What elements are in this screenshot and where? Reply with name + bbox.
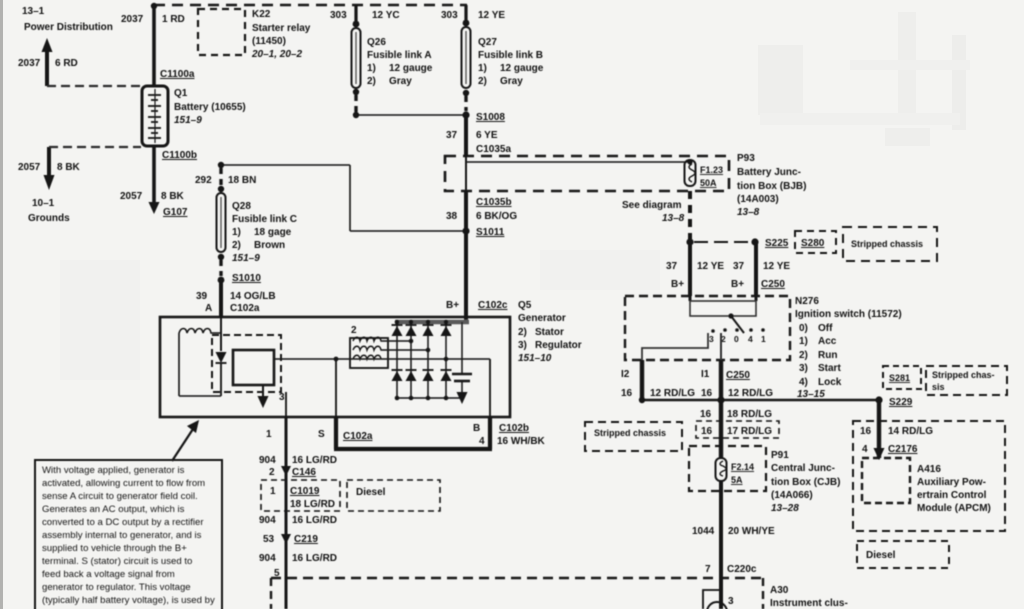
ignition switch body xyxy=(690,296,756,316)
rectifier column 4 xyxy=(445,322,447,398)
svg-text:S1011: S1011 xyxy=(476,227,505,238)
svg-text:Grounds: Grounds xyxy=(28,213,70,224)
svg-text:4: 4 xyxy=(748,334,753,344)
label wire 904 16 LG/RD (third) xyxy=(259,553,337,564)
wire pin S external xyxy=(334,417,338,449)
svg-text:16: 16 xyxy=(860,426,872,437)
svg-text:Generator: Generator xyxy=(518,313,566,324)
svg-text:0: 0 xyxy=(734,334,739,344)
label fusible link C Q28 xyxy=(232,201,297,264)
svg-text:13–8: 13–8 xyxy=(662,213,685,224)
label fusible link B Q27 xyxy=(478,37,544,87)
label pin A connector C102a xyxy=(205,303,260,314)
label wire 904 16 LG/RD (second) xyxy=(259,515,337,526)
APCM outer dashed box xyxy=(853,421,1005,531)
label battery Q1 xyxy=(174,88,246,126)
fusible link B Q27 xyxy=(462,27,471,88)
label wire 37 12 YE right and C250 xyxy=(731,261,790,290)
wire 39 14 OG/LB xyxy=(219,280,223,317)
wire 904 16 LG/RD chain xyxy=(285,417,288,609)
svg-text:2057: 2057 xyxy=(18,162,41,173)
wire Q26 branch to S1008 xyxy=(356,114,466,116)
svg-text:N276: N276 xyxy=(795,296,819,307)
svg-text:Stripped chassis: Stripped chassis xyxy=(851,239,923,249)
svg-text:1: 1 xyxy=(761,334,766,344)
svg-text:12 YE: 12 YE xyxy=(697,261,724,272)
wire dashed branch battery bottom to ground arrow xyxy=(49,146,141,148)
svg-text:C102b: C102b xyxy=(499,423,529,434)
battery Q1 xyxy=(142,86,168,146)
svg-text:C219: C219 xyxy=(294,534,318,545)
svg-text:12 YE: 12 YE xyxy=(478,10,505,21)
wire inside BJB to fuse F1.23 xyxy=(466,161,690,163)
label wire 16 12 RD/LG (right) xyxy=(701,388,773,399)
svg-text:2): 2) xyxy=(478,76,487,87)
diode field (inside regulator box) xyxy=(216,352,227,396)
svg-text:C102a: C102a xyxy=(230,303,260,314)
diode D1 top xyxy=(392,325,403,336)
svg-text:303: 303 xyxy=(441,10,458,21)
svg-text:C1100b: C1100b xyxy=(162,150,197,161)
svg-text:S229: S229 xyxy=(889,397,913,408)
svg-text:Q26: Q26 xyxy=(367,37,386,48)
svg-text:C146: C146 xyxy=(292,467,316,478)
diode D8 bottom xyxy=(441,370,452,381)
svg-text:16 LG/RD: 16 LG/RD xyxy=(292,553,337,564)
fusible link C Q28 xyxy=(217,193,226,252)
splice S225 node left xyxy=(686,238,693,245)
svg-text:C1019: C1019 xyxy=(290,486,320,497)
svg-text:3): 3) xyxy=(518,340,527,351)
wire 1044 20 WH/YE xyxy=(719,481,723,609)
svg-text:supplied to vehicle through th: supplied to vehicle through the B+ xyxy=(42,543,187,554)
svg-text:A416: A416 xyxy=(917,464,941,475)
node battery feed top xyxy=(151,3,157,9)
label grounds reference 10-1 xyxy=(28,198,70,224)
svg-text:16: 16 xyxy=(621,388,633,399)
svg-text:2057: 2057 xyxy=(120,191,143,202)
label wire 37 12 YE left xyxy=(666,261,724,290)
starter relay K22 (dashed box) xyxy=(198,9,245,55)
stator coils box xyxy=(350,338,388,368)
svg-text:assembly internal to generator: assembly internal to generator, and is xyxy=(42,530,202,541)
svg-text:37: 37 xyxy=(446,130,458,141)
label wire 303 12 YC xyxy=(330,10,400,21)
svg-text:8 BK: 8 BK xyxy=(57,162,81,173)
wire field A inside generator xyxy=(220,317,222,351)
wire contact 2 to I1 xyxy=(720,333,722,360)
indicator lamp branch xyxy=(703,590,734,609)
svg-text:P91: P91 xyxy=(771,450,789,461)
svg-text:B+: B+ xyxy=(731,279,744,290)
svg-text:C1035b: C1035b xyxy=(476,197,512,208)
svg-text:Ignition switch (11572): Ignition switch (11572) xyxy=(795,309,902,320)
svg-text:K22: K22 xyxy=(252,9,271,20)
arrow to grounds (wire 2057 8 BK) xyxy=(44,147,55,190)
wire dashed top power bus xyxy=(154,4,467,7)
wire field return bottom xyxy=(179,395,221,397)
svg-text:18 gage: 18 gage xyxy=(254,227,292,238)
node Q26 bottom xyxy=(353,89,359,95)
diode D2 top xyxy=(406,325,417,336)
battery junction box P93 (dashed box) xyxy=(445,156,729,191)
svg-text:20 WH/YE: 20 WH/YE xyxy=(728,526,775,537)
label stripped chassis (middle) xyxy=(585,422,682,451)
svg-text:Module (APCM): Module (APCM) xyxy=(917,503,991,514)
svg-text:1 RD: 1 RD xyxy=(162,14,185,25)
connector C2176 pin 4 xyxy=(862,444,918,455)
svg-text:S: S xyxy=(318,429,325,440)
field coil inside generator xyxy=(179,329,221,334)
rectifier column 2 xyxy=(410,322,412,398)
svg-text:10–1: 10–1 xyxy=(32,198,55,209)
svg-text:4: 4 xyxy=(479,436,485,447)
label diesel box (left) xyxy=(347,480,440,511)
svg-text:S281: S281 xyxy=(889,373,910,383)
wire dashed 292 18 BN xyxy=(219,168,222,185)
svg-text:16 LG/RD: 16 LG/RD xyxy=(292,455,337,466)
label stripped chassis (top) xyxy=(843,227,937,261)
wire inside BJB vertical xyxy=(465,156,467,191)
fuse F1.23 50A xyxy=(685,159,696,186)
wire dashed branch to battery top xyxy=(47,85,140,87)
wire S loop bottom xyxy=(334,447,492,451)
svg-text:904: 904 xyxy=(259,515,276,526)
stator coil phase 3 xyxy=(353,355,381,359)
svg-text:2037: 2037 xyxy=(121,14,144,25)
svg-text:14 OG/LB: 14 OG/LB xyxy=(230,291,276,302)
label see diagram 13-8 xyxy=(622,200,685,224)
capacitor to ground xyxy=(452,322,472,404)
svg-text:18 BN: 18 BN xyxy=(228,175,256,186)
svg-text:13–1: 13–1 xyxy=(22,6,45,17)
svg-text:6 BK/OG: 6 BK/OG xyxy=(476,211,517,222)
svg-text:Q27: Q27 xyxy=(478,37,497,48)
svg-text:Fusible link A: Fusible link A xyxy=(367,50,432,61)
node Q28 top xyxy=(218,186,224,192)
svg-text:904: 904 xyxy=(259,455,276,466)
svg-text:2: 2 xyxy=(351,325,357,336)
svg-text:50A: 50A xyxy=(700,178,717,188)
wire dashed Q27 to S1008 xyxy=(464,96,467,111)
svg-text:1): 1) xyxy=(478,63,487,74)
svg-text:37: 37 xyxy=(733,261,745,272)
svg-text:Generates an AC output, which: Generates an AC output, which is xyxy=(42,504,185,515)
diode D4 top xyxy=(441,325,452,336)
wire I2 below switch xyxy=(640,360,644,398)
label wire 39 14 OG/LB xyxy=(196,291,276,302)
label pin S connector C102a xyxy=(318,429,373,442)
svg-text:(14A003): (14A003) xyxy=(737,194,779,205)
svg-text:Q1: Q1 xyxy=(174,88,188,99)
node Q27 bottom xyxy=(463,90,469,96)
wire 303 12 YE stub xyxy=(464,5,467,23)
svg-text:292: 292 xyxy=(195,175,212,186)
label pin B+ connector C102c xyxy=(446,300,508,311)
svg-text:Stripped chassis: Stripped chassis xyxy=(594,428,666,438)
svg-text:tion Box (CJB): tion Box (CJB) xyxy=(771,477,840,488)
svg-text:Gray: Gray xyxy=(500,76,523,87)
svg-text:904: 904 xyxy=(259,553,276,564)
APCM module box xyxy=(862,458,910,503)
svg-text:Stator: Stator xyxy=(535,327,564,338)
svg-text:B: B xyxy=(473,423,480,434)
svg-text:S280: S280 xyxy=(801,238,825,249)
label APCM A416 xyxy=(917,464,991,514)
svg-text:S225: S225 xyxy=(765,238,789,249)
svg-text:Battery Junc-: Battery Junc- xyxy=(737,167,801,178)
svg-text:C102a: C102a xyxy=(343,431,373,442)
wire regulator to stator phase (long) xyxy=(274,358,490,360)
svg-text:sense A circuit to generator f: sense A circuit to generator field coil. xyxy=(42,491,198,502)
svg-text:16: 16 xyxy=(701,388,713,399)
svg-text:1): 1) xyxy=(799,336,808,347)
svg-text:S1008: S1008 xyxy=(476,112,505,123)
label diesel box (right) xyxy=(857,541,949,568)
note box xyxy=(35,460,222,609)
svg-text:B+: B+ xyxy=(671,279,684,290)
svg-text:Brown: Brown xyxy=(254,240,285,251)
connector C219 pin 53 xyxy=(263,534,318,545)
svg-text:5A: 5A xyxy=(731,475,743,485)
label wire 16 14 RD/LG xyxy=(860,426,933,437)
switch lever xyxy=(728,313,744,333)
note arrow to generator xyxy=(172,420,199,461)
splice S1010 xyxy=(218,273,262,284)
svg-text:sis: sis xyxy=(932,382,945,392)
wire 16 18 RD/LG below S229 bus xyxy=(719,400,723,458)
wire 37 6 YE xyxy=(464,115,468,156)
rectifier column 1 xyxy=(396,322,398,398)
label wire 2057 8 BK (battery side) xyxy=(120,191,185,202)
svg-text:6 RD: 6 RD xyxy=(55,58,78,69)
svg-text:1): 1) xyxy=(232,227,241,238)
svg-text:2): 2) xyxy=(518,327,527,338)
svg-text:13–28: 13–28 xyxy=(771,503,799,514)
splice S225 xyxy=(751,238,788,249)
label wire 2037 1 RD xyxy=(121,14,185,25)
label stripped chassis (right) xyxy=(926,366,1007,395)
splice S229 xyxy=(875,396,912,408)
node Q28 branch top xyxy=(218,162,224,168)
node Q28 bottom xyxy=(218,254,224,260)
svg-text:8 BK: 8 BK xyxy=(161,191,185,202)
wire 2037 1 RD battery top xyxy=(152,5,156,87)
svg-text:3): 3) xyxy=(799,363,808,374)
svg-text:151–10: 151–10 xyxy=(518,353,552,364)
label starter relay K22 xyxy=(251,9,311,60)
svg-text:6 YE: 6 YE xyxy=(476,130,498,141)
svg-text:2): 2) xyxy=(799,350,808,361)
svg-text:2037: 2037 xyxy=(18,58,41,69)
regulator dashed box (3) xyxy=(212,335,281,392)
svg-text:1044: 1044 xyxy=(692,526,715,537)
svg-text:S1010: S1010 xyxy=(232,273,261,284)
svg-text:I1: I1 xyxy=(701,369,710,380)
svg-text:7: 7 xyxy=(705,564,711,575)
svg-text:13–15: 13–15 xyxy=(797,389,825,400)
stator coil phase 2 xyxy=(353,346,428,350)
svg-text:With voltage applied, generato: With voltage applied, generator is xyxy=(42,465,185,476)
svg-text:Stripped chas-: Stripped chas- xyxy=(932,370,995,380)
wire S225 link xyxy=(694,241,751,243)
label fuse F2.14 5A xyxy=(731,462,754,485)
svg-text:(11450): (11450) xyxy=(252,36,286,47)
node Q26 branch bottom xyxy=(353,112,359,118)
label fuse F1.23 50A xyxy=(700,165,723,188)
svg-text:16: 16 xyxy=(701,426,713,437)
label wire 37 6 YE xyxy=(446,130,498,141)
label wire 38 6 BK/OG xyxy=(446,211,517,222)
svg-text:C250: C250 xyxy=(761,279,785,290)
svg-text:Diesel: Diesel xyxy=(356,487,386,498)
svg-text:53: 53 xyxy=(263,534,275,545)
wire dashed fuse F1.23 to S225 xyxy=(688,191,692,239)
svg-text:I2: I2 xyxy=(621,369,630,380)
wire 303 12 YC stub xyxy=(354,5,357,24)
wire stator B output down xyxy=(489,359,491,417)
svg-text:Central Junc-: Central Junc- xyxy=(771,463,835,474)
fuse F2.14 5A xyxy=(716,446,727,481)
svg-text:terminal. S (stator) circuit: terminal. S (stator) circuit is used to xyxy=(42,556,192,567)
regulator block xyxy=(233,350,274,385)
connector C146 pin 2 xyxy=(269,466,316,478)
ignition switch N276 dashed box xyxy=(625,296,790,360)
wire 12 RD/LG bus xyxy=(639,396,879,403)
ground pin 3 of regulator xyxy=(258,385,286,408)
arrow to power distribution (wire 2037 6 RD) xyxy=(42,38,53,86)
svg-text:See diagram: See diagram xyxy=(622,200,682,211)
label wire 2037 6 RD xyxy=(18,58,78,69)
wire pin B external xyxy=(488,417,492,449)
label wire 292 18 BN xyxy=(195,175,256,186)
stator coil phase 1 xyxy=(353,337,411,341)
diode D3 top xyxy=(423,325,434,336)
wire arrowhead into APCM xyxy=(874,448,885,460)
svg-text:P93: P93 xyxy=(737,153,755,164)
svg-text:2): 2) xyxy=(232,240,241,251)
svg-text:activated, allowing current to: activated, allowing current to flow from xyxy=(42,478,205,489)
svg-text:Q5: Q5 xyxy=(518,300,532,311)
wire 2057 8 BK battery to ground xyxy=(152,146,156,206)
svg-text:(14A066): (14A066) xyxy=(771,490,813,501)
svg-text:18 LG/RD: 18 LG/RD xyxy=(290,499,335,510)
wire I1 below switch xyxy=(719,360,723,400)
label battery junction box P93 xyxy=(737,153,806,218)
svg-text:0): 0) xyxy=(799,323,808,334)
wire Q28 branch vertical xyxy=(349,165,351,231)
svg-text:Battery (10655): Battery (10655) xyxy=(174,102,246,113)
svg-text:Power Distribution: Power Distribution xyxy=(24,22,113,33)
svg-text:feed back a voltage signal fro: feed back a voltage signal from xyxy=(42,569,175,580)
central junction box P91 dashed box xyxy=(689,446,766,491)
svg-text:A30: A30 xyxy=(770,585,789,596)
wire Q28 branch horizontal top xyxy=(221,164,350,166)
svg-text:1): 1) xyxy=(367,63,376,74)
svg-text:C1035a: C1035a xyxy=(476,144,511,155)
svg-text:G107: G107 xyxy=(163,207,188,218)
svg-text:F2.14: F2.14 xyxy=(731,462,754,472)
svg-text:B+: B+ xyxy=(446,300,459,311)
wire contact 3 to I2 xyxy=(642,333,708,360)
svg-text:C2176: C2176 xyxy=(888,444,918,455)
svg-text:Lock: Lock xyxy=(818,377,842,388)
label ignition switch N276 xyxy=(795,296,902,400)
svg-text:Regulator: Regulator xyxy=(535,340,582,351)
splice S281 dashed box xyxy=(883,366,921,389)
svg-text:C1100a: C1100a xyxy=(160,69,195,80)
svg-text:12 YC: 12 YC xyxy=(372,10,400,21)
svg-text:A: A xyxy=(205,303,212,314)
wire dashed Q26 to S1008 branch xyxy=(354,95,357,112)
svg-text:Run: Run xyxy=(818,350,837,361)
svg-text:3: 3 xyxy=(728,596,734,607)
label wire 1044 20 WH/YE xyxy=(692,526,775,537)
svg-text:Off: Off xyxy=(818,323,833,334)
label power distribution reference 13-1 xyxy=(22,6,113,33)
junction dots rectifier xyxy=(395,320,449,401)
svg-text:C102c: C102c xyxy=(478,300,508,311)
svg-text:2: 2 xyxy=(269,467,275,478)
splice S1008 xyxy=(462,111,505,123)
svg-text:3: 3 xyxy=(709,334,714,344)
svg-text:(typically half battery voltag: (typically half battery voltage), is use… xyxy=(42,595,215,606)
svg-text:12 RD/LG: 12 RD/LG xyxy=(728,388,773,399)
svg-text:12 YE: 12 YE xyxy=(763,261,790,272)
svg-text:16 WH/BK: 16 WH/BK xyxy=(497,436,546,447)
svg-text:F1.23: F1.23 xyxy=(700,165,723,175)
label generator Q5 xyxy=(518,300,582,364)
svg-text:converted to a DC output by a: converted to a DC output by a rectifier xyxy=(42,517,204,528)
svg-text:Fusible link C: Fusible link C xyxy=(232,214,297,225)
svg-text:Fusible link B: Fusible link B xyxy=(478,50,543,61)
instrument cluster A30 dashed box xyxy=(271,578,763,609)
svg-text:12 gauge: 12 gauge xyxy=(389,63,433,74)
label wire 16 18 RD/LG xyxy=(700,409,772,420)
generator Q5 (outer box) xyxy=(160,317,510,417)
node Q27 top xyxy=(463,20,470,27)
node Q26 top xyxy=(353,21,360,28)
svg-text:14 RD/LG: 14 RD/LG xyxy=(888,426,933,437)
note text xyxy=(42,465,215,606)
svg-text:39: 39 xyxy=(196,291,208,302)
svg-text:Q28: Q28 xyxy=(232,201,251,212)
svg-text:16 LG/RD: 16 LG/RD xyxy=(292,515,337,526)
svg-text:13–8: 13–8 xyxy=(737,207,760,218)
svg-text:Starter relay: Starter relay xyxy=(252,23,311,34)
label pin B connector C102b xyxy=(473,423,546,447)
connector dashed box 16 17 RD/LG xyxy=(696,421,779,438)
ground G107 xyxy=(149,202,188,218)
svg-text:151–9: 151–9 xyxy=(174,115,202,126)
svg-text:Start: Start xyxy=(818,363,841,374)
wire Q28 branch to S1011 xyxy=(350,230,466,232)
connector C1019 dashed box pin 1 (diesel) xyxy=(261,480,340,511)
wire 37 12 YE right xyxy=(754,242,758,296)
svg-text:C220c: C220c xyxy=(727,564,757,575)
wire S229 down xyxy=(877,400,881,458)
svg-text:17 RD/LG: 17 RD/LG xyxy=(727,426,772,437)
connector C220c pin 7 xyxy=(705,564,757,575)
label wire 904 16 LG/RD (first) xyxy=(259,455,337,466)
svg-text:tion Box (BJB): tion Box (BJB) xyxy=(737,181,806,192)
label wire 16 12 RD/LG (left) xyxy=(621,388,695,399)
wire 37 12 YE left xyxy=(688,242,692,296)
wire pin 1 inside generator xyxy=(285,392,287,417)
svg-text:1: 1 xyxy=(266,429,272,440)
svg-text:18 RD/LG: 18 RD/LG xyxy=(727,409,772,420)
wire dashed Q28 to S1010 xyxy=(219,260,222,276)
